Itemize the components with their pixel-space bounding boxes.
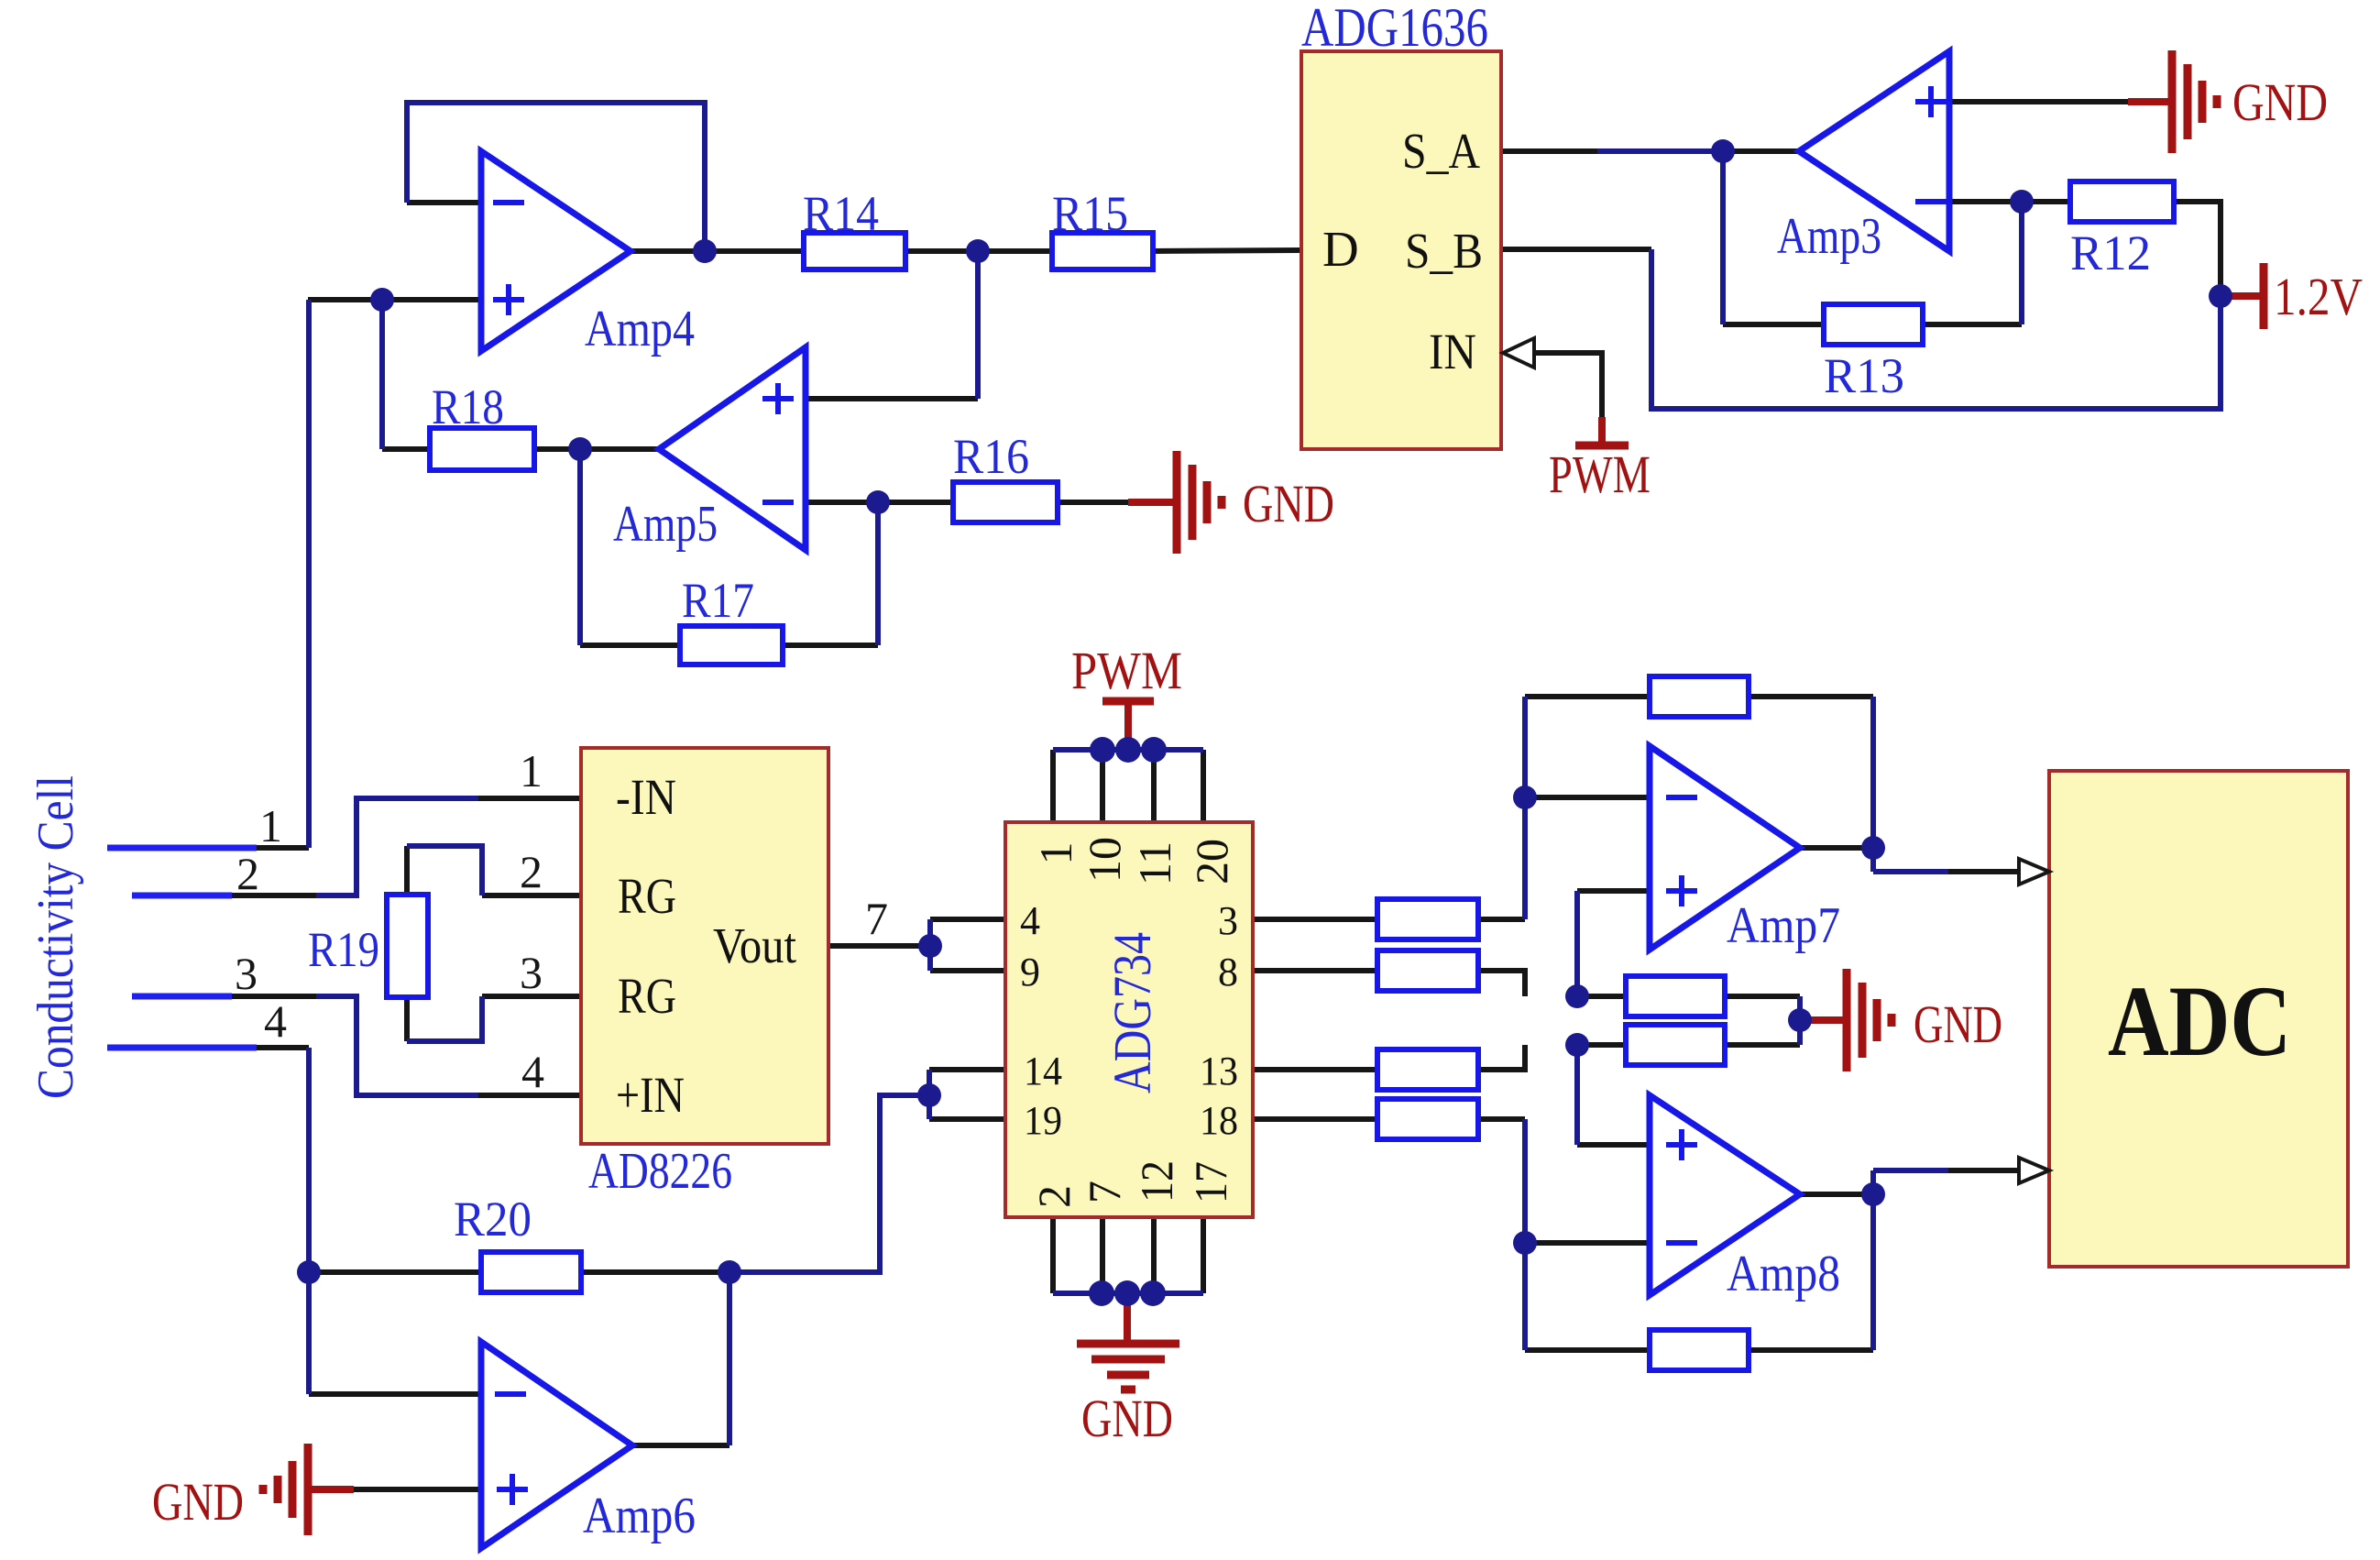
svg-text:GND: GND (1914, 994, 2002, 1054)
svg-text:9: 9 (1020, 950, 1040, 994)
svg-text:2: 2 (236, 848, 259, 899)
svg-text:2: 2 (520, 846, 543, 897)
svg-text:11: 11 (1129, 841, 1180, 885)
svg-text:19: 19 (1024, 1098, 1062, 1143)
svg-text:GND: GND (152, 1472, 244, 1532)
svg-text:R17: R17 (682, 573, 754, 628)
svg-text:12: 12 (1131, 1160, 1182, 1203)
svg-text:+IN: +IN (616, 1067, 685, 1123)
svg-text:GND: GND (1081, 1389, 1173, 1448)
svg-text:R20: R20 (454, 1192, 532, 1247)
svg-text:8: 8 (1218, 950, 1238, 994)
svg-text:R13: R13 (1824, 348, 1904, 403)
svg-text:D: D (1322, 221, 1359, 277)
svg-text:AD8226: AD8226 (588, 1143, 732, 1200)
svg-text:13: 13 (1200, 1049, 1238, 1093)
svg-text:7: 7 (1079, 1181, 1130, 1203)
svg-text:GND: GND (1243, 474, 1334, 533)
svg-text:R18: R18 (432, 379, 504, 434)
svg-text:Amp7: Amp7 (1727, 897, 1840, 954)
svg-text:GND: GND (2232, 72, 2328, 132)
svg-text:4: 4 (521, 1046, 544, 1097)
svg-text:18: 18 (1200, 1098, 1238, 1143)
svg-text:PWM: PWM (1549, 445, 1651, 504)
svg-text:Amp8: Amp8 (1727, 1246, 1840, 1302)
svg-text:IN: IN (1429, 324, 1476, 379)
svg-text:1: 1 (259, 800, 282, 851)
svg-text:14: 14 (1024, 1049, 1062, 1093)
svg-text:10: 10 (1079, 837, 1130, 883)
svg-text:Vout: Vout (713, 917, 796, 973)
svg-text:ADG1636: ADG1636 (1301, 0, 1488, 58)
svg-text:2: 2 (1028, 1185, 1080, 1208)
svg-text:7: 7 (865, 893, 888, 944)
svg-text:PWM: PWM (1071, 641, 1182, 700)
svg-text:-IN: -IN (616, 769, 676, 825)
svg-text:RG: RG (618, 968, 676, 1024)
svg-text:R19: R19 (308, 922, 379, 977)
svg-text:ADG734: ADG734 (1102, 932, 1162, 1093)
svg-text:4: 4 (264, 995, 287, 1047)
svg-text:Conductivity Cell: Conductivity Cell (27, 775, 84, 1099)
svg-text:20: 20 (1186, 839, 1237, 884)
svg-text:3: 3 (235, 948, 258, 999)
svg-text:1.2V: 1.2V (2274, 267, 2363, 326)
svg-text:Amp3: Amp3 (1777, 208, 1881, 265)
svg-text:3: 3 (520, 947, 543, 998)
svg-text:Amp5: Amp5 (613, 496, 718, 553)
svg-text:Amp6: Amp6 (583, 1488, 696, 1544)
svg-text:R15: R15 (1052, 186, 1128, 241)
svg-text:1: 1 (1030, 842, 1081, 865)
svg-text:17: 17 (1185, 1161, 1236, 1203)
svg-text:ADC: ADC (2108, 965, 2291, 1077)
svg-text:R12: R12 (2070, 225, 2151, 280)
svg-text:4: 4 (1020, 898, 1040, 943)
svg-text:3: 3 (1218, 898, 1238, 943)
svg-text:S_A: S_A (1402, 123, 1480, 179)
svg-text:S_B: S_B (1405, 223, 1483, 279)
svg-text:RG: RG (618, 868, 676, 924)
svg-text:1: 1 (520, 745, 543, 796)
svg-text:R16: R16 (953, 429, 1029, 484)
svg-text:R14: R14 (803, 186, 879, 241)
svg-text:Amp4: Amp4 (585, 301, 695, 357)
